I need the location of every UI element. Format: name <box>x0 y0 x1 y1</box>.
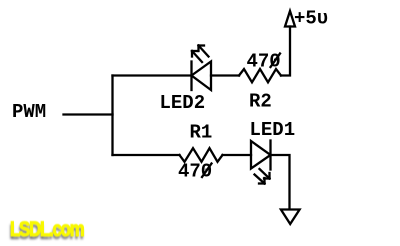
wire bottom branch to R1 <box>113 154 180 156</box>
LED D2 light arrow 2 <box>199 46 209 57</box>
svg-text:470: 470 <box>247 51 281 73</box>
slash of zero in 470 (R1) <box>202 164 212 178</box>
LED D2 cathode bar <box>190 62 192 91</box>
LED D1 light arrow 1 <box>260 169 270 179</box>
LED D2 light arrow 1 <box>192 51 202 62</box>
wire PWM to branch <box>64 113 113 115</box>
svg-text:+5υ: +5υ <box>294 8 328 30</box>
svg-text:R2: R2 <box>249 91 272 113</box>
wire LED1 to ground corner <box>271 155 290 209</box>
svg-text:R1: R1 <box>190 122 213 144</box>
watermark LSDL.com <box>10 219 83 240</box>
svg-text:470: 470 <box>178 161 212 183</box>
ground symbol <box>281 210 300 225</box>
LED D1 light arrow 2 <box>255 175 265 184</box>
svg-text:LED1: LED1 <box>250 119 296 141</box>
wire LED2 to R2 <box>211 74 239 76</box>
wire R2 to +5v corner <box>281 27 290 76</box>
wire vertical branch <box>111 76 113 156</box>
LED D1 triangle <box>251 141 271 169</box>
svg-text:LED2: LED2 <box>160 92 206 114</box>
+5v power arrow <box>285 11 295 27</box>
svg-text:PWM: PWM <box>12 101 46 123</box>
wire top branch to LED2 <box>113 74 192 76</box>
wire R1 to LED1 <box>223 154 252 156</box>
slash of zero in 470 (R2) <box>271 54 281 68</box>
LED D2 triangle <box>192 62 212 91</box>
LED D1 cathode bar <box>269 141 271 170</box>
resistor R2 zigzag <box>239 69 281 82</box>
resistor R1 zigzag <box>180 148 223 162</box>
